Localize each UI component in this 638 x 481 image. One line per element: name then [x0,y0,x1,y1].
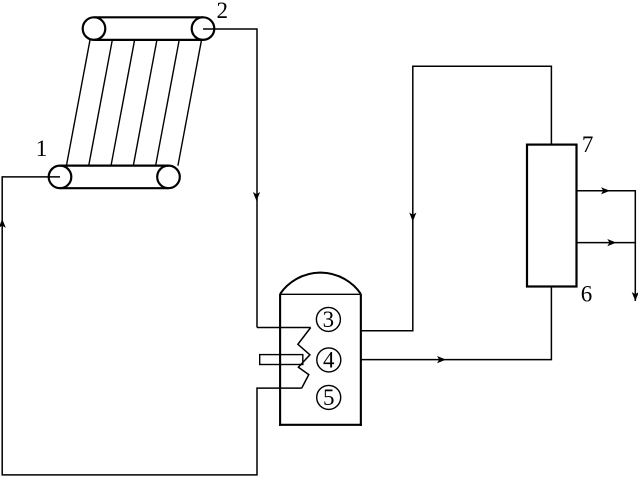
heater bar [260,355,303,365]
wire tank outlet to exchanger bottom [361,287,552,360]
arrow up on left riser [0,219,6,228]
arrow down on middle riser [409,213,416,222]
node 3 [316,307,340,332]
heater zigzag [298,328,311,389]
svg-text:4: 4 [323,348,335,373]
svg-text:1: 1 [36,136,48,161]
node 4 [317,348,341,373]
tank dome [280,273,361,294]
svg-text:7: 7 [582,132,594,157]
arrow right on outlet bottom [607,239,616,246]
wire tank bottom to collector inlet 1 (left loop) [2,177,302,475]
heat exchanger body [527,145,577,287]
collector bottom drum [49,166,180,189]
node 5 [317,385,341,410]
collector tubes [66,40,201,166]
collector top drum [83,17,215,40]
exchanger outlet top line [577,191,636,301]
svg-text:2: 2 [217,0,229,23]
arrow down on collector downcomer [253,192,260,201]
svg-text:5: 5 [323,385,335,410]
exchanger outlet bottom line [577,242,636,244]
svg-text:6: 6 [581,281,593,306]
wire collector outlet 2 to tank (right, down) [203,29,257,328]
arrow right on outlet top [601,187,610,194]
tank shell [279,294,362,426]
arrow down at right edge [632,292,638,301]
svg-text:3: 3 [323,307,335,332]
tank dome apex nub [318,272,323,274]
wire exchanger to tank (down the middle riser) [361,66,552,330]
wire into tank zigzag top [257,327,311,329]
arrow right on tank outlet [437,356,446,363]
